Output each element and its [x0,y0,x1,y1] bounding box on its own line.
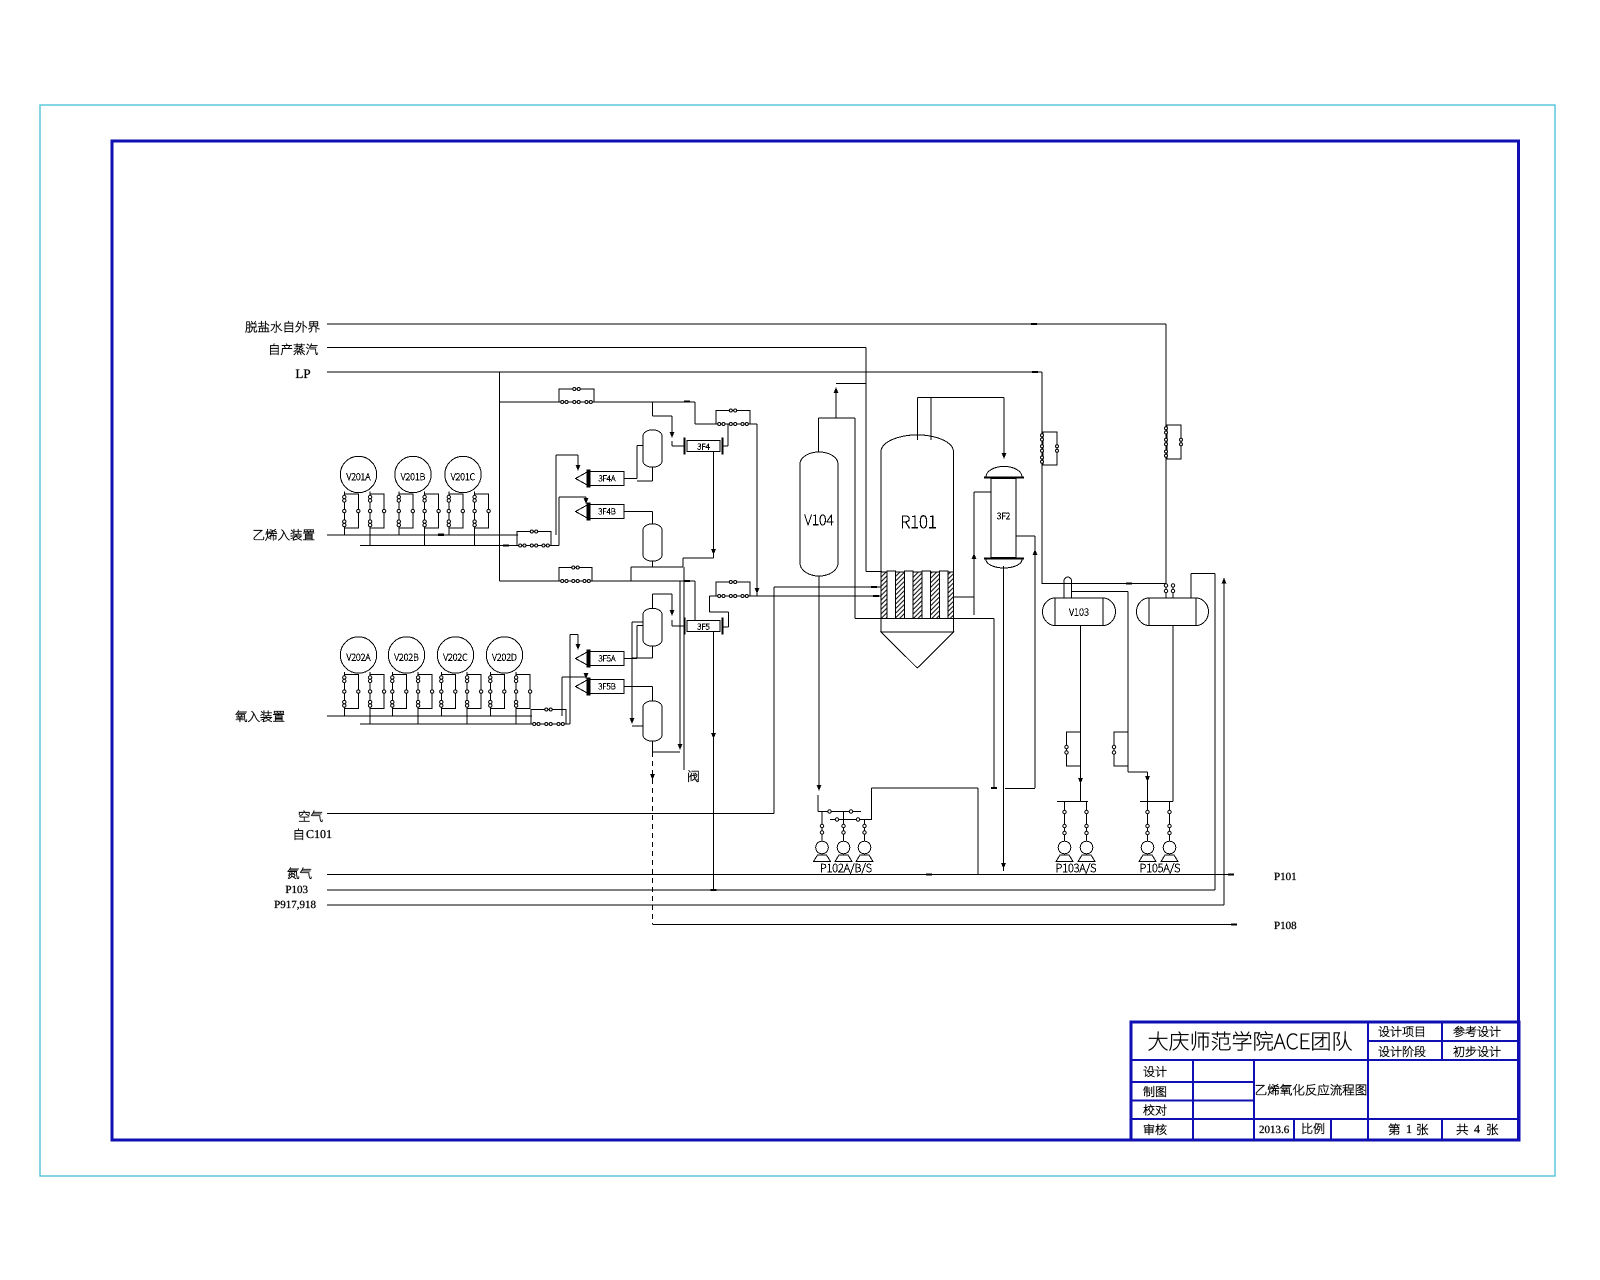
wire: jacket CW out [954,596,975,598]
wire [671,620,673,626]
reactor R101 [881,435,954,668]
valve station on ethylene header [517,530,551,547]
inline filter 3F5 [685,618,723,635]
arrowhead on dashed line [650,774,655,780]
label 自C101 [295,829,303,840]
wire [585,677,587,678]
wire [710,611,729,613]
wire: recycle drop [679,581,681,748]
wire: R101 bottoms [954,618,995,620]
label 乙烯入装置 [254,529,315,540]
wire: R101 overhead nozzle [917,398,919,441]
arrowhead [711,549,716,555]
wire [653,593,673,595]
wire: P102 discharge riser [871,788,873,820]
wire: 3F5A outlet [624,658,637,660]
wire: 3F2 CW out [1016,535,1035,537]
wire: 3F2 condensate drop [1003,566,1005,871]
wire: filter bypass drop [756,424,758,596]
wire: P103 suction header [1057,801,1088,803]
wire: mixed feed manifold [500,580,696,582]
wire: dashed blowdown to P108 rail [652,752,654,925]
drum V102 [1137,598,1209,626]
arrowhead [1001,863,1006,869]
V103 top nozzle [1064,577,1072,598]
arrowhead [711,733,716,739]
wire: 3F4A feed riser [555,455,557,535]
wire: 3F4B feed riser [558,497,560,546]
wire: LP drop to mix manifold [499,372,501,581]
arrowhead into 3F4A [576,465,581,471]
arrowhead into 3F2 [1002,453,1007,459]
filter 3F5A [576,650,625,667]
wire: P102 suction [817,795,819,812]
wire: oxygen header 2 [360,723,570,725]
wire: ethylene header 2 [360,545,559,547]
wire: steam drop to R101 jacket [865,348,867,572]
wire [585,497,587,502]
title block texts [1149,1031,1352,1050]
label P101 [1274,873,1296,880]
wire: air to R101 [774,586,882,588]
wire: F3 bottom [652,646,654,658]
arrowhead into mix line [755,588,760,594]
valve station on R101 feed [716,581,750,598]
wire [556,454,578,456]
valve pair on V103 vapour drop [1114,732,1128,766]
wire: LP header [327,371,1042,373]
wire: V104/R101 riser [854,418,856,619]
wire: V103 vapor line [1072,591,1129,593]
wire: V102 vapor [1190,574,1192,599]
wire: ethylene header 1 [327,534,518,536]
wire: second header [830,819,872,821]
wire: 3F4 outlet riser [727,424,729,446]
wire: CW return jog [1005,788,1035,790]
valve pair on V103 bottoms [1067,732,1081,766]
tank V202C [437,637,483,724]
pump P102S [856,841,873,861]
valve station on oxygen header [531,708,566,726]
column F3 [643,608,662,646]
wire: V103 bottoms [1080,626,1082,802]
valve station on LP drop [1041,432,1059,465]
wire: suction header [818,811,861,813]
wire into column F2 [652,512,654,525]
wire into column F1 [637,445,643,447]
wire [930,398,932,441]
filter 3F5B [576,678,625,695]
label 自产蒸汽 [270,344,317,355]
wire: F1 top riser [652,402,654,416]
wire [1003,398,1005,457]
wire [682,558,684,567]
wire: P917/918 bottom rail [327,904,1224,906]
wire: manifold drop into 3F5 [694,581,696,621]
arrowhead [1033,549,1038,555]
pump P105S [1161,841,1178,861]
label LP [296,370,310,379]
outer cyan border frame [40,105,1555,1176]
wire: nitrogen / P101 bottom rail [327,874,1233,876]
inner blue border frame [112,141,1519,1140]
wire [653,415,673,417]
wire: pump riser [864,820,866,842]
filter 3F4B [576,503,625,520]
vessel V104 [800,452,838,576]
pump P102A [814,841,831,861]
wire: V102 second nozzle [1172,584,1174,599]
wire: drop to P103 rail [1214,574,1216,891]
valve station on mixed feed manifold [559,566,592,583]
label 阀 [688,770,698,782]
valve station on 3F4 line [716,409,750,426]
wire [723,445,729,447]
wire: F2 bottom to manifold [652,561,654,567]
arrowhead [1078,778,1083,784]
wire [632,725,643,727]
wire: demin water drop to drum V102 [1165,324,1167,598]
arrowhead vent [834,387,839,393]
arrowhead into 3F4 [670,432,675,438]
wire to 3F4 [672,445,684,447]
wire: nozzle plate [819,417,856,419]
wire to 3F5 [672,625,684,627]
wire: pump riser [821,812,823,842]
label 空气 [299,811,322,822]
valve station on LP branch [559,388,594,404]
label 氮气 [288,868,312,879]
wire: pump riser [843,812,845,842]
wire: 3F4B outlet [624,511,653,513]
wire: overhead to 3F2 [918,397,1005,399]
wire: V104 top nozzle [818,418,820,452]
wire [632,621,643,623]
wire: P105 suction header [1140,801,1173,803]
wire: 3F5B outlet [624,686,653,688]
filter 3F4A [576,470,625,487]
arrowhead into 3F5A [576,644,581,650]
column F2 [643,524,662,561]
wire [559,496,586,498]
column F4 [643,701,662,741]
wire: parallel drop [683,567,685,770]
arrowhead [972,553,977,559]
wire: F4 bottom stub [652,741,654,752]
wire [637,480,653,482]
arrowhead into 3F5B [584,673,589,679]
arrowhead into 3F4B [584,498,589,504]
drum V102 nozzle valves [1164,584,1167,587]
wire [631,566,683,568]
wire into column F3 [637,625,643,627]
label 氧入装置 [236,711,285,722]
tank V202A [340,637,386,724]
wire: pump riser [1064,802,1066,842]
wire: feed to R101 [710,595,883,597]
wire: riser from P917 rail [1223,579,1225,905]
arrowhead [817,785,822,791]
wire [653,751,681,753]
wire [630,567,632,581]
arrowhead [630,718,635,724]
wire [671,441,673,446]
wire [636,626,638,659]
label P917,918 [274,901,315,910]
wire: pump riser [1086,802,1088,842]
title block [1131,1022,1519,1140]
wire: pump riser [1169,802,1171,842]
arrowhead [1145,776,1150,782]
pump P103A [1056,841,1073,861]
wire: jacket top inlet [866,571,882,573]
label P103 [286,886,308,893]
wire: air riser [773,587,775,814]
wire: 3F4 drain [713,451,715,558]
wire: air line 空气 [327,813,774,815]
wire: 3F5A feed riser [569,635,571,725]
arrowhead [678,744,683,750]
tank V202D [486,637,532,724]
wire: 3F5 drain to P103 rail [713,632,715,890]
tank V201C [445,456,491,545]
wire: V104 vent [835,389,837,418]
label 脱盐水自外界 [246,321,320,332]
wire: V104 bottoms to P102 [818,576,820,788]
wire: jacket bottom line [855,618,882,620]
wire: oxygen header 1 [327,715,532,717]
wire: V102 bottoms to P105 [1172,626,1174,802]
wire [577,455,579,469]
wire: F3/F4 connector [631,622,633,722]
tank V202B [388,637,434,724]
wire [723,626,729,628]
wire: 3F4A outlet [624,478,637,480]
wire: P102 discharge header [872,787,979,789]
wire [570,634,578,636]
wire: 3F4 bypass line [695,423,757,425]
wire: 3F5B feed riser [561,677,563,716]
wire [1191,573,1215,575]
wire: pump riser [1147,802,1149,842]
wire: steam header 自产蒸汽 [327,347,866,349]
pump P103S [1078,841,1095,861]
wire [632,657,653,659]
wire [728,612,730,627]
wire: LP drop to V103 [1041,372,1043,584]
arrowhead [1222,578,1227,584]
pump P102B [835,841,852,861]
wire: P103 bottom rail [327,889,1215,891]
wire: 3F5 outlet jog [709,596,711,612]
wire [671,594,673,614]
wire [562,676,586,678]
wire [1147,772,1149,802]
wire [683,557,714,559]
wire: P108 bottom rail [653,924,1236,926]
cooler 3F2 [984,466,1024,568]
wire: drop to bottom rail [977,788,979,875]
wire [836,383,866,385]
wire [671,416,673,436]
pump P105A [1139,841,1156,861]
wire [993,619,995,789]
inline filter 3F4 [685,438,723,455]
wire [577,635,579,649]
wire: CW riser [973,492,975,615]
wire: LP to drums [1042,583,1166,585]
wire: LP branch to column F1 [500,401,696,403]
wire: F1 bottom [652,467,654,481]
tank V201A [340,456,386,545]
wire [636,446,638,479]
wire [1127,592,1129,773]
label P108 [1274,922,1296,929]
drum V103 [1043,598,1116,626]
valve station on demin water drop [1165,425,1183,459]
wire [1128,771,1148,773]
column F1 [643,430,662,467]
tank V201B [395,456,441,545]
wire: demin water header 脱盐水自外界 [327,323,1166,325]
arrowhead into 3F5 [670,610,675,616]
wire [1034,536,1036,788]
junction ticks [1031,323,1037,325]
wire: F3 top riser [652,594,654,609]
wire into column F4 [652,687,654,702]
wire [694,402,696,424]
wire: 3F2 CW in [974,491,991,493]
